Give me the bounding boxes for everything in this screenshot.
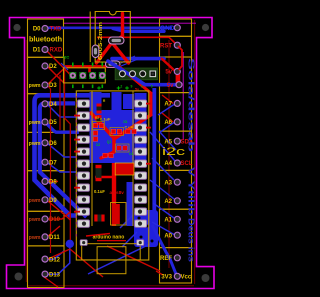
pad GND bbox=[174, 25, 180, 31]
pad D2 bbox=[42, 63, 48, 69]
wire blue 5v upper bbox=[112, 57, 164, 61]
svg-text:D13: D13 bbox=[49, 272, 61, 278]
pad A5 bbox=[174, 138, 180, 144]
pad D9 bbox=[42, 197, 48, 203]
wire red stub L5 bbox=[74, 151, 80, 153]
pad U1-L1 bbox=[78, 100, 90, 107]
keepout line right inner bbox=[168, 40, 170, 268]
pad RST bbox=[174, 42, 180, 48]
wire blue left second bbox=[40, 103, 87, 217]
wire blue A1 bbox=[153, 203, 174, 218]
wire red A7 bbox=[162, 95, 173, 103]
wire red main diagonal bbox=[114, 115, 151, 139]
wire red D9 bbox=[47, 200, 70, 220]
svg-text:A2: A2 bbox=[164, 199, 172, 205]
svg-text:D0: D0 bbox=[33, 27, 41, 33]
keepout line left bbox=[25, 40, 27, 282]
keepout line bottom bbox=[27, 285, 194, 287]
pour hole 4 bbox=[151, 240, 154, 243]
pad C3a bbox=[111, 129, 116, 134]
box D6-D7 bbox=[28, 132, 65, 170]
pad U1-L11 bbox=[78, 220, 90, 227]
mounting hole top-right bbox=[202, 24, 209, 31]
silk nano inner right bbox=[132, 91, 134, 226]
pad U1-R10 bbox=[135, 208, 147, 215]
wire red vertical left3 bbox=[59, 75, 61, 130]
svg-text:pwm: pwm bbox=[29, 198, 41, 204]
wire blue pour diag1 bbox=[120, 215, 133, 228]
pad J2-1 bbox=[119, 71, 125, 77]
svg-text:ams8v: ams8v bbox=[110, 190, 125, 195]
pad C5a bbox=[117, 146, 122, 151]
pad C3b bbox=[117, 129, 122, 134]
box REF-3V3 bbox=[160, 248, 192, 283]
box RST bbox=[160, 36, 192, 57]
wire blue top2 bbox=[113, 29, 164, 32]
pad U1-L6 bbox=[78, 160, 90, 167]
wire blue A6 bbox=[159, 123, 174, 134]
connector USB outline bbox=[82, 244, 141, 260]
label J1-1 top bbox=[72, 63, 74, 67]
svg-text:A7: A7 bbox=[164, 102, 172, 108]
pad USB-L bbox=[80, 240, 87, 246]
wire red nano label crossing bbox=[86, 234, 110, 237]
pad D11 bbox=[42, 234, 48, 240]
mounting hole top-left bbox=[13, 24, 20, 31]
wire red RST down bbox=[178, 46, 182, 70]
box A5-A4 bbox=[160, 131, 192, 170]
wire red buzzer stem bbox=[113, 14, 123, 44]
pad U1-L9 bbox=[78, 196, 90, 203]
svg-text:A4: A4 bbox=[164, 161, 172, 167]
svg-text:A3: A3 bbox=[164, 180, 172, 186]
svg-text:A0: A0 bbox=[164, 233, 172, 239]
board outline bbox=[7, 18, 215, 289]
label J1-3 bottom bbox=[92, 85, 94, 89]
box D2-D3 bbox=[28, 57, 65, 93]
pad U1-R1 bbox=[135, 100, 147, 107]
pad C4a bbox=[126, 129, 131, 134]
connector J2 body bbox=[115, 68, 157, 80]
label J1-4 bottom bbox=[102, 85, 104, 89]
svg-text:D1: D1 bbox=[124, 120, 128, 124]
box A3-A2 bbox=[160, 170, 192, 209]
box 5v bbox=[160, 57, 192, 93]
wire red buzzer V bbox=[97, 43, 129, 64]
pad D10 bbox=[42, 216, 48, 222]
keepout dashed nano left bbox=[75, 96, 77, 240]
pad A1 bbox=[174, 216, 180, 222]
wire blue A4 bbox=[150, 132, 175, 161]
pad U1-R5 bbox=[135, 148, 147, 155]
copper pour bottom right bbox=[134, 210, 158, 247]
pad A7 bbox=[174, 100, 180, 106]
svg-text:D11: D11 bbox=[49, 235, 60, 241]
pad D8 bbox=[42, 178, 48, 184]
wire red usb top bbox=[97, 240, 126, 242]
svg-text:TXD: TXD bbox=[50, 27, 63, 33]
silk line right connector bbox=[182, 52, 184, 140]
wire red bottom left bbox=[44, 277, 58, 287]
silk line top bbox=[64, 22, 197, 24]
wire red stub L10 bbox=[74, 211, 80, 213]
wire blue A0 bbox=[152, 222, 174, 235]
component R-smd S1 bbox=[109, 37, 125, 44]
box D8-D9 bbox=[28, 171, 65, 212]
pad U1-R6 bbox=[135, 160, 147, 167]
pad U1-R2 bbox=[135, 112, 147, 119]
pad J1-4 bbox=[99, 72, 106, 79]
component R-smd S2 bbox=[92, 45, 99, 58]
pad J2-3 bbox=[140, 71, 146, 77]
module U1 arduino nano outline bbox=[76, 91, 149, 260]
svg-text:5v: 5v bbox=[135, 88, 139, 92]
wire red bottom diag2 bbox=[107, 246, 160, 271]
pad D12 bbox=[42, 256, 48, 262]
pad U1-L2 bbox=[78, 112, 90, 119]
copper pour nano left bbox=[90, 92, 102, 163]
wire red D8 bbox=[47, 180, 58, 182]
svg-text:pwm: pwm bbox=[29, 217, 41, 223]
pad J1-3 bbox=[89, 72, 96, 79]
box GND bbox=[160, 19, 192, 36]
pad J1-2 bbox=[79, 72, 86, 79]
pad J2-2 bbox=[130, 71, 136, 77]
pad C1b bbox=[99, 123, 104, 128]
via mark 99 bbox=[97, 86, 101, 90]
pad U1-L8 bbox=[78, 184, 90, 191]
wire blue D12 bbox=[48, 251, 64, 259]
wire red J2 crossing bbox=[119, 67, 151, 94]
pad J2-4 bbox=[150, 71, 156, 77]
silk outline c1 bbox=[93, 122, 105, 130]
wire red D10 bbox=[47, 212, 70, 219]
wire blue pour diag2 bbox=[122, 232, 137, 247]
wire red stub R1 bbox=[146, 103, 151, 105]
svg-text:RXD: RXD bbox=[50, 48, 63, 54]
svg-text:R2: R2 bbox=[95, 116, 99, 120]
svg-text:RST: RST bbox=[160, 43, 172, 49]
wire red diag2 bbox=[91, 113, 113, 137]
component C5 bbox=[96, 165, 102, 181]
wire blue D6 bbox=[47, 143, 76, 157]
svg-text:D3: D3 bbox=[49, 83, 57, 89]
box D12-D13 bbox=[28, 246, 65, 288]
wire red nano mid bbox=[95, 176, 112, 179]
wire red header stub bbox=[88, 67, 91, 72]
wire red vertical left2 bbox=[65, 66, 71, 240]
svg-text:D7: D7 bbox=[49, 160, 57, 166]
box A7-A6 bbox=[160, 93, 192, 132]
keepout line right bbox=[194, 20, 196, 284]
box D10-D11 bbox=[28, 211, 65, 246]
svg-text:D6: D6 bbox=[49, 141, 57, 147]
silk line buzzer left bbox=[89, 12, 91, 63]
mounting hole bottom-left bbox=[15, 273, 23, 281]
silk nano inner left bbox=[91, 91, 93, 226]
svg-text:0.1uF: 0.1uF bbox=[94, 189, 105, 194]
pad 5v bbox=[174, 69, 180, 75]
wire red RST diag bbox=[97, 37, 177, 44]
pad D3 bbox=[42, 82, 48, 88]
pad C5b bbox=[123, 146, 128, 151]
copper pour nano topright bbox=[123, 94, 134, 109]
svg-text:5v: 5v bbox=[165, 70, 172, 76]
pad A3 bbox=[174, 179, 180, 185]
wire red RST riser bbox=[176, 73, 181, 85]
label J1-2 top bbox=[82, 63, 84, 67]
wire red stub R3 bbox=[146, 127, 151, 129]
svg-text:D1: D1 bbox=[33, 48, 41, 54]
svg-text:D5: D5 bbox=[49, 120, 57, 126]
component R2 bbox=[97, 115, 102, 125]
svg-text:REF: REF bbox=[160, 256, 172, 262]
wire red stub L2 bbox=[74, 115, 80, 117]
svg-text:5: 5 bbox=[151, 85, 153, 89]
svg-text:A1: A1 bbox=[164, 218, 172, 224]
pad C1a bbox=[93, 123, 98, 128]
wire red stub L4 bbox=[74, 139, 80, 141]
pour hole 1 bbox=[138, 217, 141, 220]
svg-text:D9: D9 bbox=[49, 198, 57, 204]
svg-text:Deus ins: Deus ins bbox=[187, 218, 197, 262]
wire blue A7 bbox=[158, 105, 174, 116]
svg-text:Sola/desab: Sola/desab bbox=[187, 58, 197, 152]
svg-text:C2: C2 bbox=[96, 143, 100, 147]
pad 3V3 bbox=[174, 273, 180, 279]
component C6 bbox=[94, 215, 104, 222]
pad C2b bbox=[93, 137, 98, 142]
pad U1-L5 bbox=[78, 148, 90, 155]
pad U1-R11 bbox=[135, 220, 147, 227]
pad U1-R7 bbox=[135, 172, 147, 179]
wire blue 5v entry bbox=[108, 61, 176, 85]
wire blue D7 bbox=[47, 163, 76, 173]
pad D1 bbox=[42, 47, 48, 53]
wire red stub R6 bbox=[146, 163, 151, 165]
wire blue left main bbox=[35, 95, 111, 215]
silk outline c5 bbox=[116, 144, 130, 152]
wire blue J1 corner bbox=[61, 63, 68, 70]
svg-text:pwm: pwm bbox=[29, 83, 41, 89]
wire blue A2 bbox=[150, 180, 174, 199]
wire blue nano bottom bbox=[100, 159, 133, 163]
pad USB-R bbox=[137, 240, 144, 246]
pad 5v-in bbox=[176, 82, 182, 88]
pad C6b bbox=[109, 153, 114, 158]
pad D7 bbox=[42, 159, 48, 165]
via mark 127 bbox=[125, 86, 129, 90]
wire red D3-J2 path bbox=[47, 68, 65, 86]
svg-text:D8: D8 bbox=[49, 180, 57, 186]
pad D0 bbox=[42, 26, 48, 32]
svg-text:5v: 5v bbox=[167, 83, 174, 89]
pad D6 bbox=[42, 140, 48, 146]
pad A6 bbox=[174, 119, 180, 125]
svg-text:C.uF: C.uF bbox=[125, 126, 134, 130]
wire blue A5 bbox=[159, 131, 176, 150]
box A1-A0 bbox=[160, 209, 192, 247]
pad U1-R8 bbox=[135, 184, 147, 191]
svg-text:V Ytilib: V Ytilib bbox=[187, 167, 197, 216]
wire red nano vertical bbox=[112, 163, 116, 226]
pad U1-R3 bbox=[135, 124, 147, 131]
box D4-D5 bbox=[28, 94, 65, 133]
svg-text:pwm: pwm bbox=[29, 120, 41, 126]
wire blue usb diagonal bbox=[88, 244, 150, 274]
pad C2a bbox=[93, 131, 98, 136]
svg-text:pwm: pwm bbox=[29, 235, 41, 241]
pad D4 bbox=[42, 101, 48, 107]
label J1-2 bottom bbox=[82, 85, 84, 89]
wire red diag4 bbox=[101, 138, 114, 158]
pad U1-L10 bbox=[78, 208, 90, 215]
connector J1 outline bbox=[64, 68, 106, 83]
svg-text:D2: D2 bbox=[49, 64, 57, 70]
wire red D12 bbox=[48, 249, 70, 259]
mounting hole bottom-right bbox=[202, 274, 210, 282]
wire blue 3V3 bbox=[152, 225, 176, 274]
component U2 regulator bbox=[111, 203, 127, 226]
silk outline c3 bbox=[110, 128, 124, 136]
label J1-3 top bbox=[92, 63, 94, 67]
svg-text:3V3: 3V3 bbox=[161, 275, 172, 281]
copper pour nano lowright bbox=[127, 182, 134, 226]
svg-text:3: 3 bbox=[141, 85, 143, 89]
pad D5 bbox=[42, 119, 48, 125]
pad REF bbox=[174, 255, 180, 261]
wire red D2 bbox=[47, 66, 64, 83]
pad A4 bbox=[174, 160, 180, 166]
svg-text:bluetooth: bluetooth bbox=[29, 37, 62, 44]
wire blue J2 diag2 bbox=[121, 59, 138, 66]
wire blue D5 thick bbox=[45, 122, 79, 132]
copper pour nano right pads bbox=[135, 93, 147, 160]
wire red right riser bbox=[149, 92, 152, 116]
wire blue A3 bbox=[152, 158, 174, 180]
copper pour nano mid bbox=[112, 92, 122, 112]
svg-text:D4: D4 bbox=[49, 102, 57, 108]
label J1-4 top bbox=[102, 63, 104, 67]
via blob bottom bbox=[66, 240, 74, 248]
copper pour nano center bbox=[92, 110, 134, 163]
pad C4b bbox=[132, 129, 137, 134]
svg-text:A5: A5 bbox=[164, 139, 172, 145]
component R1 bbox=[97, 104, 102, 114]
pad A2 bbox=[174, 198, 180, 204]
pad U1-L3 bbox=[78, 124, 90, 131]
svg-text:Vcc: Vcc bbox=[181, 275, 192, 281]
connector USB inner bbox=[97, 247, 126, 274]
wire blue D4 bbox=[47, 104, 79, 117]
pour hole 2 bbox=[146, 225, 149, 228]
pad U1-R4 bbox=[135, 136, 147, 143]
label J1-1 bottom bbox=[72, 85, 74, 89]
svg-text:A6: A6 bbox=[164, 120, 172, 126]
pour hole 3 bbox=[140, 236, 143, 239]
component R-smd S3 bbox=[106, 61, 121, 67]
wire red stub L8 bbox=[74, 187, 80, 189]
svg-text:2: 2 bbox=[120, 85, 122, 89]
wire red D11 bbox=[47, 226, 60, 237]
wire blue J2 diag1 bbox=[121, 56, 135, 63]
pad C6a bbox=[103, 153, 108, 158]
svg-text:GND: GND bbox=[160, 25, 175, 32]
pad U1-R9 bbox=[135, 196, 147, 203]
component BZ1 outline bbox=[95, 12, 130, 63]
pad D13 bbox=[42, 271, 48, 277]
svg-text:D12: D12 bbox=[49, 257, 61, 263]
svg-text:I2C: I2C bbox=[63, 55, 69, 60]
svg-text:C4: C4 bbox=[129, 152, 133, 156]
svg-text:0.1uF: 0.1uF bbox=[100, 117, 111, 122]
wire TXD-GND blue bbox=[48, 26, 172, 29]
wire red vertical left bbox=[47, 85, 51, 253]
component D3s bbox=[115, 163, 134, 175]
svg-text:pwm: pwm bbox=[29, 141, 41, 147]
pad U1-L4 bbox=[78, 136, 90, 143]
wire red 5v diag bbox=[161, 58, 175, 71]
wire red REF stub bbox=[156, 271, 163, 275]
svg-text:Q1: Q1 bbox=[107, 140, 111, 144]
svg-text:i2c: i2c bbox=[162, 146, 186, 158]
pad J1-1 bbox=[69, 72, 76, 79]
pad U1-L7 bbox=[78, 172, 90, 179]
box bluetooth bbox=[28, 19, 64, 57]
pad A0 bbox=[174, 232, 180, 238]
wire blue D13 bbox=[48, 247, 70, 274]
wire red bottom diag1 bbox=[70, 249, 103, 277]
wire blue right pour column bbox=[152, 88, 156, 226]
svg-text:D10: D10 bbox=[49, 217, 61, 223]
via mark 118.5 bbox=[117, 86, 121, 90]
svg-text:9: 9 bbox=[131, 85, 133, 89]
wire red A6 bbox=[162, 113, 173, 122]
wire red RXD bbox=[46, 50, 72, 76]
